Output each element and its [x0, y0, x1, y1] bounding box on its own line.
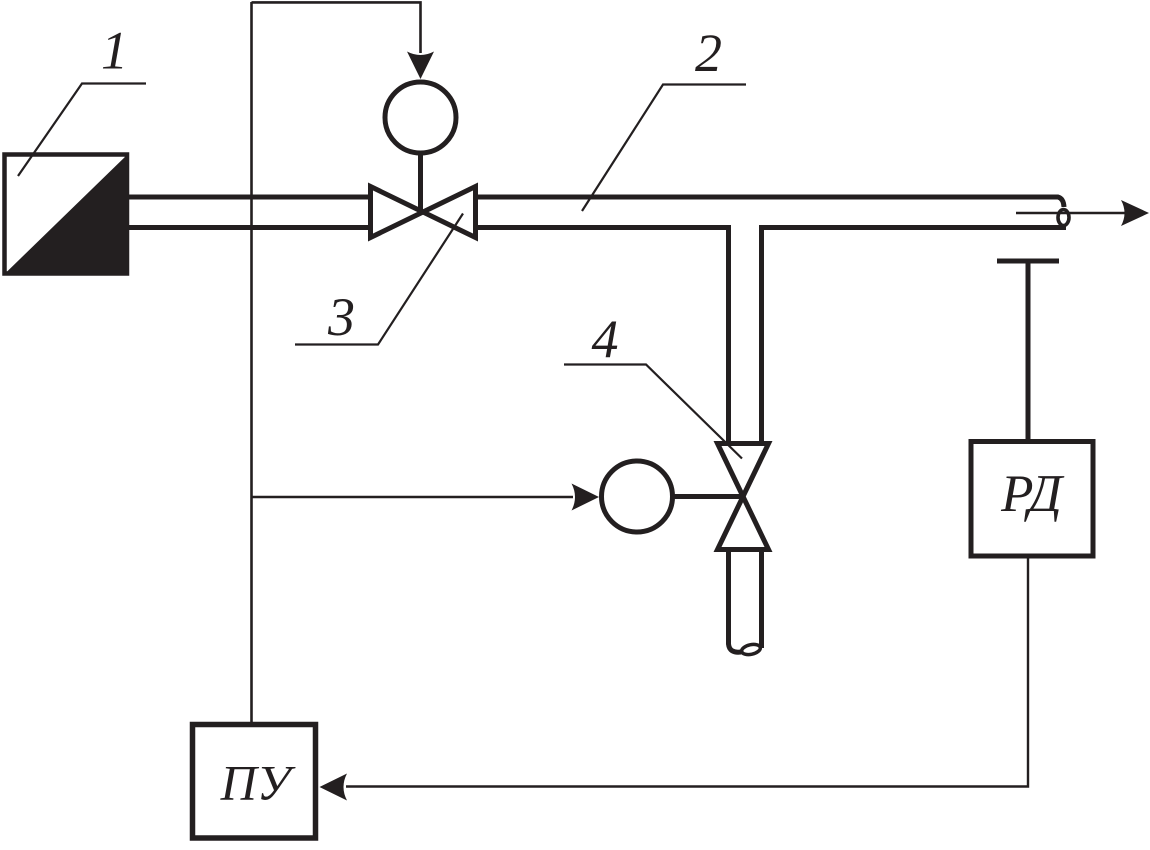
valve 4 body [718, 444, 769, 550]
svg-text:3: 3 [327, 287, 355, 347]
label 3 [295, 214, 463, 348]
valve 4 actuator circle [602, 461, 673, 532]
pressure tap T-bar [997, 259, 1059, 264]
RD box (pressure regulator) [971, 442, 1093, 557]
svg-text:1: 1 [101, 21, 128, 81]
branch pipe lower (left wall with curled open end) [729, 549, 742, 652]
label 1 [18, 21, 146, 177]
label 4 [564, 309, 742, 459]
sensor box 1 [3, 154, 129, 276]
label 2 [582, 23, 746, 211]
pipe 2 bottom line [129, 225, 1066, 230]
pressure tap stem [1026, 260, 1031, 441]
outlet flow arrowhead [1121, 200, 1149, 226]
control line to actuator 4 [252, 496, 574, 499]
svg-text:4: 4 [592, 309, 619, 369]
pipe outlet open end ellipse [1058, 210, 1069, 226]
valve 3 body [371, 187, 476, 238]
control line riser (vertical) [250, 2, 253, 722]
svg-text:2: 2 [695, 23, 722, 83]
valve 3 stem [418, 153, 423, 212]
arrowhead into actuator 4 [572, 484, 600, 511]
branch open end ellipse [741, 643, 762, 656]
svg-text:ПУ: ПУ [220, 755, 296, 811]
branch pipe upper (left wall) [726, 225, 731, 443]
valve 3 actuator circle [385, 82, 456, 153]
valve 4 connector to actuator [673, 494, 744, 499]
arrowhead into PU box [320, 774, 348, 801]
branch pipe lower (right wall) [759, 549, 764, 648]
outlet flow arrow line [1016, 212, 1136, 214]
arrowhead into actuator 3 [407, 52, 434, 80]
PU box (control panel) [193, 725, 316, 839]
branch pipe upper (right wall) [759, 225, 764, 443]
control line top run to valve 3 actuator [252, 2, 421, 53]
feedback line RD to PU [346, 557, 1028, 787]
pipe 2 top line [129, 197, 1064, 207]
svg-text:РД: РД [1000, 465, 1065, 523]
